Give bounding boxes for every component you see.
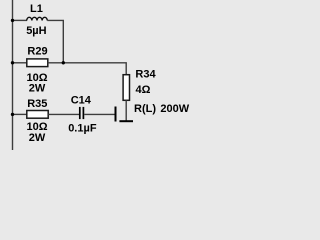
wire: R35 to C14 bbox=[48, 113, 79, 115]
capacitor C14 bbox=[79, 107, 81, 119]
svg-text:4Ω: 4Ω bbox=[136, 84, 151, 96]
svg-text:5µH: 5µH bbox=[26, 25, 46, 37]
node: junction dot bus/top wire bbox=[11, 19, 14, 22]
svg-text:R(L): R(L) bbox=[134, 103, 156, 115]
svg-text:2W: 2W bbox=[29, 83, 46, 95]
resistor R29 bbox=[27, 59, 48, 67]
wire: C14 to load terminal bbox=[84, 113, 115, 115]
load terminal bar (horizontal) under R34 bbox=[119, 120, 133, 122]
wire: bus to R29 bbox=[13, 62, 27, 64]
node: junction dot bus/R35 wire bbox=[11, 113, 14, 116]
wire: inductor to right corner, down to R29 output node bbox=[47, 20, 63, 62]
wire: R29 to R34 branch corner bbox=[48, 63, 126, 75]
svg-text:200W: 200W bbox=[160, 103, 189, 115]
load terminal bar (vertical) at end of C14 wire bbox=[115, 107, 117, 122]
svg-text:R35: R35 bbox=[27, 98, 47, 110]
svg-text:L1: L1 bbox=[30, 3, 43, 15]
node: junction dot bus/R29 wire bbox=[11, 61, 14, 64]
node: junction dot R29 output / L1 return bbox=[62, 61, 65, 64]
resistor R34 bbox=[123, 75, 129, 101]
svg-text:C14: C14 bbox=[71, 95, 92, 107]
wire: top row from bus to inductor bbox=[13, 19, 28, 21]
wire: R34 to load terminal bbox=[125, 100, 127, 120]
svg-text:R34: R34 bbox=[135, 69, 156, 81]
inductor L1 bbox=[27, 17, 48, 20]
svg-text:0.1µF: 0.1µF bbox=[68, 123, 97, 135]
resistor R35 bbox=[27, 111, 48, 119]
wire: bus to R35 bbox=[13, 113, 27, 115]
svg-text:2W: 2W bbox=[29, 132, 46, 144]
wire: vertical bus at left bbox=[12, 0, 14, 150]
svg-text:R29: R29 bbox=[27, 46, 47, 58]
